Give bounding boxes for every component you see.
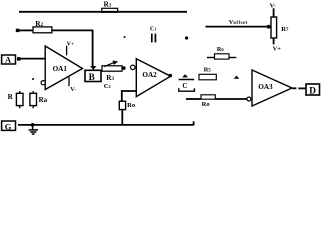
svg-text:OA1: OA1 bbox=[53, 65, 68, 73]
svg-text:B: B bbox=[89, 72, 95, 82]
op-amp OA3 bbox=[252, 70, 292, 106]
potentiometer R7 bbox=[271, 8, 289, 44]
capacitor C (polarized, below OA2 output) bbox=[179, 74, 195, 91]
svg-text:OA3: OA3 bbox=[258, 83, 273, 91]
resistor Ro (series into OA3) bbox=[201, 95, 215, 108]
potentiometer R3 (after B) bbox=[102, 60, 122, 90]
terminal dot after A bbox=[17, 57, 21, 60]
svg-text:R1: R1 bbox=[104, 0, 112, 9]
op-amp OA2 bbox=[136, 59, 170, 97]
capacitor C1 (floating plates, top middle) bbox=[150, 27, 156, 43]
OA3 input bubble bbox=[247, 97, 251, 101]
svg-text:R: R bbox=[8, 93, 14, 101]
svg-text:D: D bbox=[309, 85, 316, 95]
svg-text:V+: V+ bbox=[67, 42, 74, 48]
arrowhead into node B bbox=[90, 66, 96, 70]
resistor R5 (upper branch to OA3) bbox=[199, 67, 216, 80]
wire from dot to R2 bbox=[19, 29, 33, 31]
svg-text:R2: R2 bbox=[35, 19, 43, 28]
junction arrow right of R5 bbox=[234, 76, 240, 79]
node box B bbox=[85, 70, 101, 82]
svg-text:Ro: Ro bbox=[202, 101, 211, 108]
resistor R2 bbox=[33, 19, 52, 33]
svg-text:V+: V+ bbox=[273, 45, 282, 52]
potentiometer wiper wire (V_offset) bbox=[206, 26, 270, 28]
svg-text:C2: C2 bbox=[104, 83, 112, 90]
junction dot at wiper bbox=[267, 25, 271, 29]
junction dot on rail bbox=[31, 123, 35, 127]
node box G bbox=[2, 121, 16, 131]
resistor R (vertical, below OA1) bbox=[8, 91, 23, 108]
wire top feedback line bbox=[19, 11, 187, 13]
wire Ro to ground rail bbox=[121, 110, 123, 125]
resistor R1 (bump on top line) bbox=[102, 0, 118, 12]
speck dot left of OA1 bubble bbox=[32, 78, 34, 80]
svg-text:V-: V- bbox=[70, 87, 76, 93]
svg-text:Ra: Ra bbox=[39, 96, 48, 104]
wire feedback vertical down to node B bbox=[92, 30, 94, 67]
svg-text:G: G bbox=[5, 121, 12, 131]
op-amp OA1 bbox=[45, 46, 82, 90]
OA1 V+ pin bbox=[67, 42, 74, 56]
svg-text:R7: R7 bbox=[281, 26, 289, 33]
OA2 inverting input bubble bbox=[131, 65, 136, 70]
svg-text:Ro: Ro bbox=[127, 102, 136, 109]
junction dot after R3 bbox=[122, 66, 126, 70]
svg-text:V-: V- bbox=[270, 2, 276, 9]
wire A to OA1 bbox=[21, 58, 46, 60]
svg-text:C: C bbox=[182, 82, 187, 90]
node box A bbox=[2, 55, 16, 65]
svg-text:R5: R5 bbox=[204, 67, 212, 74]
svg-text:Voffset: Voffset bbox=[229, 19, 248, 26]
speck dot near R3 bbox=[124, 36, 126, 38]
wire OA3 output to D bbox=[292, 87, 296, 89]
node box D bbox=[306, 84, 320, 95]
junction dot (right of C1) bbox=[185, 36, 188, 39]
svg-text:R3: R3 bbox=[106, 74, 114, 82]
svg-text:OA2: OA2 bbox=[142, 71, 157, 79]
resistor Ra (vertical, below OA1) bbox=[30, 91, 48, 108]
wire rail end tick bbox=[193, 121, 195, 125]
wire R2 to corner bbox=[52, 29, 93, 31]
wire lower branch into OA3 bbox=[186, 98, 201, 100]
resistor Ro (vertical at OA2) bbox=[119, 101, 136, 109]
svg-text:C1: C1 bbox=[150, 27, 156, 33]
junction dot at OA2 output bbox=[168, 74, 172, 78]
node input terminal dot (left of R2) bbox=[16, 29, 20, 32]
wire Ro to OA3 bubble bbox=[215, 98, 247, 100]
svg-text:R6: R6 bbox=[217, 46, 225, 53]
OA1 V- pin bbox=[69, 77, 77, 93]
wire ground rail bbox=[18, 124, 194, 126]
ground bbox=[29, 125, 38, 134]
OA1 inverting input bubble bbox=[41, 81, 45, 85]
resistor R6 (offset branch) bbox=[207, 46, 236, 59]
wire OA2 lower input to Ro bbox=[122, 91, 137, 101]
svg-text:A: A bbox=[5, 55, 12, 65]
